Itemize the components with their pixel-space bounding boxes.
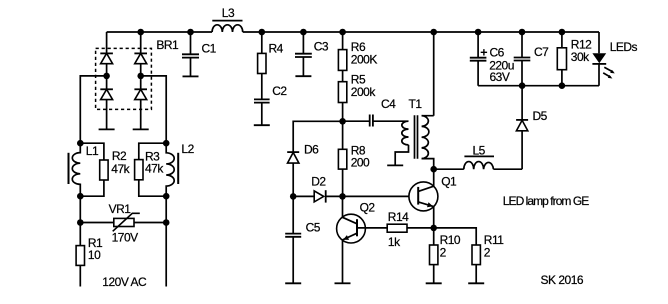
svg-text:2: 2 (484, 245, 491, 259)
svg-text:200K: 200K (351, 52, 378, 66)
transistor Q1 (409, 169, 457, 228)
node L1 bottom (77, 193, 84, 200)
capacitor C5 (285, 196, 321, 283)
resistor R2 (80, 143, 130, 196)
ground bridge left (99, 128, 115, 130)
resistor R8 (338, 121, 370, 196)
svg-text:VR1: VR1 (109, 202, 132, 216)
resistor R11 (434, 228, 505, 283)
wire left rail to VR1 (79, 196, 81, 245)
svg-text:D5: D5 (533, 109, 548, 123)
node L2 bottom (163, 193, 170, 200)
resistor R10 (430, 228, 461, 283)
node C3 (300, 29, 307, 36)
svg-text:L3: L3 (222, 6, 235, 20)
ground C2 (254, 124, 270, 126)
svg-text:C4: C4 (381, 97, 396, 111)
wire bridge left column (106, 32, 108, 129)
node C1 (187, 29, 194, 36)
svg-text:L1: L1 (86, 144, 99, 158)
svg-text:R4: R4 (269, 41, 284, 55)
node R12 top (559, 29, 566, 36)
ground bridge right (133, 128, 149, 130)
node D5 bottom rail (519, 82, 526, 89)
node T1 secondary / L5 / Q1 collector (430, 166, 437, 173)
node C7 top (519, 29, 526, 36)
svg-text:C5: C5 (306, 220, 321, 234)
node top rail at bridge (137, 29, 144, 36)
wire node B to Q1 base (343, 195, 409, 197)
inductor L5 (434, 143, 522, 169)
LED LEDs (592, 32, 637, 86)
svg-text:C7: C7 (534, 45, 549, 59)
wire LED block bottom rail (478, 85, 599, 87)
node D6 bottom (290, 193, 297, 200)
diode BR1 top-left (100, 53, 113, 63)
ground R11 (468, 282, 484, 284)
ground R10 (426, 282, 442, 284)
node R12 bottom rail (559, 82, 566, 89)
node bridge left AC (103, 73, 110, 80)
bridge BR1 dashed outline (96, 48, 152, 109)
diode BR1 bottom-right (134, 89, 147, 99)
resistor R6 (338, 32, 377, 70)
ground C1 (183, 75, 199, 77)
svg-text:D6: D6 (304, 142, 319, 156)
diode D6 (287, 121, 342, 196)
svg-text:C3: C3 (314, 40, 329, 54)
wire top rail left segment (107, 31, 213, 33)
wire top rail right segment (243, 31, 599, 33)
svg-text:200: 200 (351, 155, 370, 169)
svg-text:SK 2016: SK 2016 (541, 273, 584, 287)
resistor R12 (557, 32, 592, 86)
wire bridge left AC arm (80, 76, 106, 143)
resistor R14 (387, 210, 434, 249)
capacitor C4 (343, 97, 409, 127)
node bridge right AC (137, 73, 144, 80)
node C6 top (475, 29, 482, 36)
svg-text:D2: D2 (311, 175, 326, 189)
svg-text:30k: 30k (571, 50, 590, 64)
node Q1 emitter / R14 / R10 / R11 (430, 225, 437, 232)
node R6 (339, 29, 346, 36)
capacitor C6 (470, 32, 514, 86)
node B junction R8/D2/Q2/Q1 (339, 193, 346, 200)
diode BR1 top-right (134, 53, 147, 63)
wire bridge right column (140, 32, 142, 129)
transistor Q2 (337, 196, 388, 283)
resistor R3 (135, 143, 167, 196)
ground T1 primary (387, 164, 403, 166)
svg-text:Q1: Q1 (441, 175, 457, 189)
resistor R1 (76, 236, 103, 287)
svg-text:LED lamp from GE: LED lamp from GE (503, 194, 589, 208)
capacitor C7 (514, 32, 549, 86)
svg-text:Q2: Q2 (360, 200, 376, 214)
diode D5 (516, 86, 548, 170)
resistor R5 (338, 70, 376, 121)
diode BR1 bottom-left (100, 89, 113, 99)
diode D2 (293, 175, 342, 203)
svg-text:R14: R14 (388, 210, 409, 224)
varistor VR1 (80, 202, 166, 245)
inductor L3 (212, 6, 243, 32)
ground C5 (285, 282, 301, 284)
svg-text:120V AC: 120V AC (102, 275, 147, 289)
node R4 (259, 29, 266, 36)
svg-text:BR1: BR1 (156, 38, 179, 52)
svg-text:170V: 170V (112, 230, 139, 244)
svg-text:47k: 47k (111, 162, 130, 176)
svg-text:1k: 1k (388, 235, 401, 249)
capacitor C1 (182, 32, 217, 76)
capacitor C2 (254, 84, 287, 125)
node VR1 left (77, 219, 84, 226)
svg-text:47k: 47k (145, 162, 164, 176)
inductor L2 (166, 142, 194, 196)
ground Q2 (335, 282, 351, 284)
svg-text:C1: C1 (202, 42, 217, 56)
node VR1 right (163, 219, 170, 226)
svg-text:2: 2 (440, 245, 447, 259)
ground C3 (295, 75, 311, 77)
svg-text:R2: R2 (112, 149, 127, 163)
node L1 top (77, 140, 84, 147)
node L2 top (163, 140, 170, 147)
svg-text:200k: 200k (351, 85, 377, 99)
svg-text:L2: L2 (181, 142, 194, 156)
transformer T1 (395, 32, 434, 169)
svg-text:63V: 63V (490, 70, 510, 84)
resistor R4 (258, 32, 284, 99)
inductor L1 (69, 143, 99, 196)
svg-text:C2: C2 (272, 84, 287, 98)
wire right rail to bottom (165, 196, 167, 286)
svg-text:L5: L5 (473, 143, 486, 157)
wire bridge right AC arm (141, 76, 167, 143)
node T1 top rail (430, 29, 437, 36)
svg-text:C6: C6 (490, 46, 505, 60)
svg-text:10: 10 (88, 248, 101, 262)
svg-text:T1: T1 (409, 97, 423, 111)
capacitor C3 (295, 32, 329, 76)
node A junction R5/R8/C4/D6 (339, 118, 346, 125)
svg-text:LEDs: LEDs (610, 40, 638, 54)
